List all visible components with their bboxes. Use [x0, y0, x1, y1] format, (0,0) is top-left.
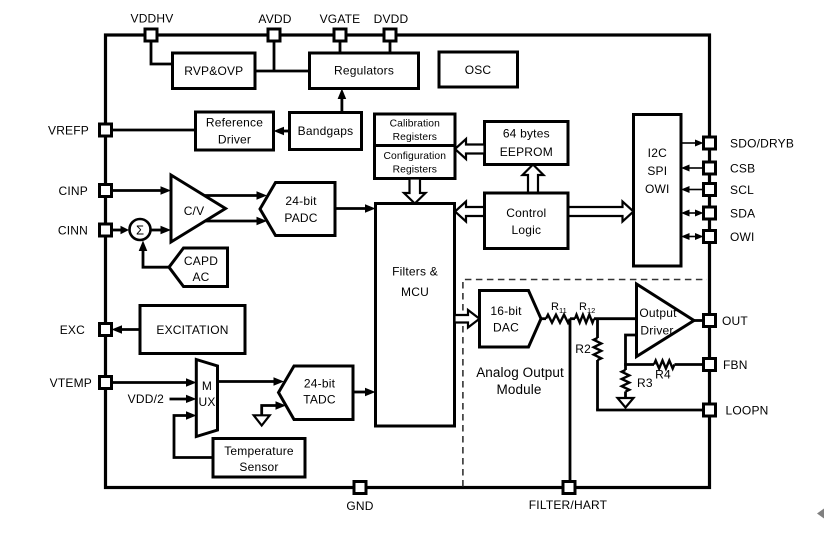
svg-text:TADC: TADC — [303, 393, 336, 407]
block 24-bit TADC — [279, 366, 354, 420]
ground to TADC — [254, 401, 286, 425]
wire Bandgaps to Regulators arrow up — [338, 89, 347, 113]
hollow arrow Control Logic to I2C SPI OWI — [568, 202, 634, 222]
pin LOOPN — [704, 404, 769, 418]
svg-text:Output: Output — [639, 306, 677, 320]
box Bandgaps — [290, 113, 362, 150]
svg-text:VREFP: VREFP — [48, 124, 89, 138]
sigma summing node — [130, 219, 151, 240]
pin GND — [346, 482, 373, 514]
pin EXC — [60, 323, 112, 337]
hollow arrow Filters & MCU to DAC — [455, 310, 480, 328]
svg-text:C/V: C/V — [184, 204, 205, 218]
pin FBN — [704, 358, 748, 372]
wire LOOPN line — [596, 409, 703, 412]
svg-text:16-bit: 16-bit — [490, 304, 522, 318]
pin OWI — [704, 230, 755, 244]
wire R2 branch top — [596, 319, 599, 338]
svg-text:DAC: DAC — [493, 321, 519, 335]
svg-text:64 bytes: 64 bytes — [503, 127, 550, 141]
svg-text:OSC: OSC — [465, 63, 492, 77]
pin SCL — [704, 183, 755, 197]
svg-text:Analog Output: Analog Output — [476, 365, 564, 380]
wire CINP to C/V — [112, 186, 172, 195]
pin CSB — [704, 162, 756, 176]
resistor R11 — [546, 301, 570, 323]
wire VGATE stub — [339, 41, 342, 53]
wire DVDD stub — [389, 41, 392, 53]
resistor R2 — [575, 338, 601, 360]
wire SCL to I2C — [681, 186, 704, 193]
wire VREFP — [112, 129, 196, 132]
svg-text:MCU: MCU — [401, 285, 429, 299]
svg-text:Σ: Σ — [136, 223, 144, 238]
svg-text:VDD/2: VDD/2 — [128, 392, 164, 406]
pin AVDD — [258, 12, 291, 41]
box Filters & MCU — [376, 204, 455, 427]
block 16-bit DAC — [480, 291, 542, 348]
wire RVP&OVP to Regulators — [255, 70, 310, 73]
wire Output Driver to OUT — [694, 319, 704, 322]
multiplexer MUX — [196, 360, 217, 437]
pin SDO/DRYB — [704, 137, 795, 151]
pin CINN — [58, 224, 112, 238]
svg-text:Registers: Registers — [393, 132, 437, 143]
resistor R4 — [654, 361, 674, 382]
svg-text:Calibration: Calibration — [390, 119, 440, 130]
wire VDDHV stub — [151, 41, 173, 64]
box Regulators — [310, 53, 419, 89]
wire Temperature Sensor to MUX — [174, 411, 213, 457]
pin SDA — [704, 207, 756, 221]
wire R11 to R12 — [570, 317, 575, 320]
svg-text:11: 11 — [559, 306, 567, 315]
box Control Logic — [485, 193, 569, 249]
svg-text:RVP&OVP: RVP&OVP — [184, 64, 243, 78]
svg-text:OUT: OUT — [722, 314, 748, 328]
svg-text:DVDD: DVDD — [374, 12, 409, 26]
svg-text:PADC: PADC — [284, 211, 317, 225]
svg-text:VGATE: VGATE — [320, 12, 361, 26]
dashed box Analog Output Module — [463, 280, 707, 487]
svg-text:Module: Module — [497, 382, 542, 397]
svg-text:VDDHV: VDDHV — [130, 12, 173, 26]
wire I2C to SDO/DRYB — [681, 140, 704, 147]
svg-text:FILTER/HART: FILTER/HART — [529, 498, 608, 512]
pin VDDHV — [130, 12, 173, 42]
hollow arrow EEPROM to Registers — [455, 139, 485, 159]
svg-text:Temperature: Temperature — [224, 444, 294, 458]
pin CINP — [59, 184, 112, 198]
svg-text:AVDD: AVDD — [258, 12, 291, 26]
box I2C SPI OWI — [634, 115, 682, 267]
svg-text:SDO/DRYB: SDO/DRYB — [730, 137, 794, 151]
box Calibration Registers — [375, 114, 456, 146]
wire C/V to PADC upper — [204, 191, 267, 200]
wire CSB to I2C — [681, 165, 704, 172]
pin DVDD — [374, 12, 409, 41]
wire AVDD stub — [273, 41, 276, 71]
wire OWI bidirectional — [681, 233, 704, 240]
wire CINN to sigma — [112, 226, 130, 235]
ground below R3 — [618, 392, 634, 408]
wire MUX to TADC — [218, 377, 285, 386]
wire DAC to R11 — [541, 317, 546, 320]
svg-text:R: R — [579, 301, 587, 313]
svg-text:Registers: Registers — [393, 165, 437, 176]
wire feedback junction to R4 — [624, 363, 654, 366]
svg-text:Filters &: Filters & — [392, 265, 438, 279]
svg-text:CINN: CINN — [58, 224, 88, 238]
wire R4 to FBN — [675, 363, 704, 366]
svg-text:CSB: CSB — [730, 162, 755, 176]
svg-text:CINP: CINP — [59, 184, 88, 198]
block CAPD AC — [169, 248, 228, 287]
box 64 bytes EEPROM — [485, 122, 569, 165]
wire sigma to C/V — [151, 226, 171, 235]
svg-text:EXCITATION: EXCITATION — [156, 323, 228, 337]
hollow arrow Registers down to Filters & MCU — [404, 179, 426, 204]
svg-text:Bandgaps: Bandgaps — [298, 124, 354, 138]
svg-text:EEPROM: EEPROM — [500, 145, 553, 159]
label Analog Output Module — [476, 365, 564, 397]
pin OUT — [704, 314, 749, 328]
hollow arrow Control Logic up to EEPROM — [523, 165, 544, 194]
svg-text:GND: GND — [346, 499, 373, 513]
svg-text:Reference: Reference — [206, 116, 263, 130]
scrollbar glyph bottom right — [817, 509, 824, 519]
box EXCITATION — [140, 306, 245, 354]
svg-text:12: 12 — [587, 306, 595, 315]
wire R2 to LOOPN line — [596, 360, 599, 410]
resistor R3 — [622, 365, 653, 392]
svg-text:Sensor: Sensor — [239, 460, 278, 474]
pin VTEMP — [50, 376, 112, 390]
svg-text:SCL: SCL — [730, 183, 754, 197]
box Reference Driver — [196, 112, 274, 150]
svg-text:24-bit: 24-bit — [304, 377, 336, 391]
wire C/V to PADC lower — [205, 217, 267, 226]
wire R12 to Output Driver — [594, 317, 637, 320]
svg-text:SPI: SPI — [647, 164, 667, 178]
svg-text:UX: UX — [198, 395, 215, 409]
box RVP&OVP — [173, 53, 256, 89]
svg-text:M: M — [202, 379, 212, 393]
pin FILTER/HART — [529, 482, 608, 513]
wire SDA bidirectional — [681, 210, 704, 217]
hollow arrow Control Logic to Filters & MCU — [455, 202, 485, 222]
svg-text:Driver: Driver — [640, 324, 673, 338]
svg-text:24-bit: 24-bit — [285, 194, 317, 208]
wire VTEMP to MUX — [112, 378, 197, 387]
svg-text:I2C: I2C — [648, 146, 667, 160]
svg-text:FBN: FBN — [723, 358, 748, 372]
wire feedback to driver input — [626, 335, 637, 365]
pin VGATE — [320, 12, 361, 41]
svg-text:Configuration: Configuration — [384, 151, 447, 162]
wire Bandgaps to Reference Driver arrow left — [274, 127, 290, 136]
chip boundary — [106, 35, 710, 488]
svg-text:R4: R4 — [655, 368, 671, 382]
pin VREFP — [48, 124, 112, 138]
svg-text:OWI: OWI — [730, 230, 755, 244]
svg-text:LOOPN: LOOPN — [726, 404, 769, 418]
resistor R12 — [575, 301, 595, 323]
wire TADC to Filters & MCU — [353, 388, 376, 397]
svg-text:R: R — [551, 301, 559, 313]
op-amp C/V converter — [171, 175, 226, 242]
svg-text:VTEMP: VTEMP — [50, 376, 92, 390]
wire CAPD AC to sigma — [139, 241, 169, 268]
svg-text:OWI: OWI — [645, 182, 670, 196]
box Temperature Sensor — [213, 439, 305, 478]
wire junction to FILTER/HART — [569, 319, 572, 482]
box Configuration Registers — [375, 146, 456, 179]
svg-text:Driver: Driver — [218, 133, 251, 147]
svg-text:Logic: Logic — [511, 223, 541, 237]
svg-text:R2: R2 — [575, 342, 591, 356]
wire EXCITATION to EXC — [112, 325, 141, 334]
svg-text:SDA: SDA — [730, 207, 755, 221]
svg-text:Control: Control — [506, 206, 546, 220]
svg-text:EXC: EXC — [60, 323, 85, 337]
svg-text:R3: R3 — [637, 376, 653, 390]
box OSC — [439, 52, 518, 87]
op-amp Output Driver — [637, 284, 695, 357]
block 24-bit PADC — [260, 183, 335, 236]
svg-text:Regulators: Regulators — [334, 64, 394, 78]
svg-text:CAPD: CAPD — [184, 254, 218, 268]
node VDD/2 — [128, 392, 197, 406]
svg-text:AC: AC — [192, 270, 209, 284]
wire PADC to Filters & MCU — [335, 204, 376, 213]
